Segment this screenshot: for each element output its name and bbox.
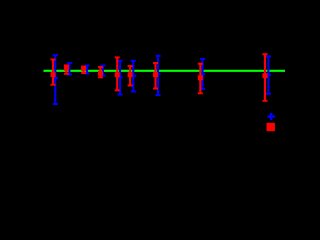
red square marker point 1 xyxy=(51,72,56,77)
red square marker point 6 xyxy=(128,72,133,77)
red square marker point 7 xyxy=(153,72,158,77)
blue error bar point 5 xyxy=(118,61,123,95)
red square marker point 9 xyxy=(263,73,268,78)
red error bar point 8 xyxy=(198,64,203,94)
blue error bar point 1 xyxy=(53,55,58,104)
red error bar point 7 xyxy=(153,63,158,89)
red square marker point 4 xyxy=(98,71,103,76)
blue error bar point 9 xyxy=(266,56,271,94)
blue cross marker point 5 xyxy=(117,76,122,78)
blue cross marker point 8 xyxy=(200,73,205,75)
red error bar point 1 xyxy=(51,60,56,85)
legend blue cross marker xyxy=(268,113,275,120)
red error bar point 2 xyxy=(64,65,69,73)
blue cross marker point 9 xyxy=(266,74,271,76)
blue error bar point 2 xyxy=(67,63,72,75)
blue error bar point 8 xyxy=(200,59,205,89)
red square marker point 3 xyxy=(81,66,86,71)
red error bar point 9 xyxy=(263,54,268,101)
blue cross marker point 7 xyxy=(155,73,160,75)
blue error bar point 3 xyxy=(85,66,90,74)
red error bar point 6 xyxy=(128,66,133,86)
green reference line xyxy=(44,70,286,72)
red error bar point 4 xyxy=(98,67,103,77)
blue error bar point 7 xyxy=(156,56,161,95)
blue error bar point 4 xyxy=(100,66,105,76)
blue cross marker point 1 xyxy=(53,77,58,79)
legend red square marker xyxy=(267,123,275,131)
red square marker point 5 xyxy=(115,72,120,77)
blue error bar point 6 xyxy=(131,61,136,92)
red square marker point 8 xyxy=(198,75,203,80)
red error bar point 5 xyxy=(115,57,120,90)
blue cross marker point 6 xyxy=(131,75,136,77)
red error bar point 3 xyxy=(81,67,86,73)
red square marker point 2 xyxy=(64,66,69,71)
